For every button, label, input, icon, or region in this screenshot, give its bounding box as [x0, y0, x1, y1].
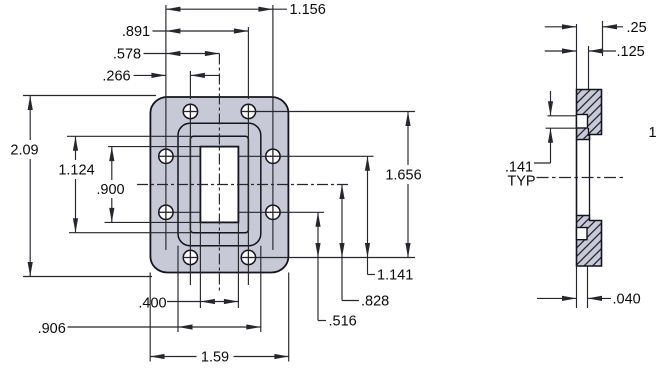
svg-text:.040: .040 — [613, 291, 641, 307]
svg-text:TYP: TYP — [507, 174, 535, 190]
svg-text:1.141: 1.141 — [377, 268, 413, 284]
svg-text:.891: .891 — [122, 24, 150, 40]
svg-text:.400: .400 — [138, 296, 166, 312]
svg-text:1.124: 1.124 — [58, 163, 94, 179]
svg-text:.25: .25 — [627, 20, 647, 36]
svg-text:1: 1 — [648, 125, 656, 141]
svg-text:.828: .828 — [361, 294, 389, 310]
svg-text:.900: .900 — [96, 182, 124, 198]
svg-text:1.656: 1.656 — [385, 168, 421, 184]
svg-text:.906: .906 — [38, 321, 66, 337]
svg-text:.125: .125 — [617, 44, 645, 60]
svg-text:1.59: 1.59 — [201, 350, 229, 366]
svg-text:.266: .266 — [102, 69, 130, 85]
svg-text:.516: .516 — [329, 314, 357, 330]
svg-text:2.09: 2.09 — [10, 143, 38, 159]
svg-text:.578: .578 — [113, 47, 141, 63]
svg-text:1.156: 1.156 — [290, 2, 326, 18]
